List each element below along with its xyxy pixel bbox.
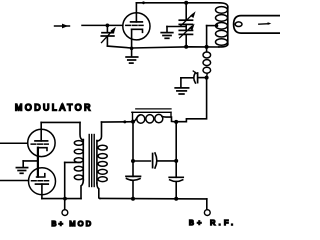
- svg-text:B+ R.F.: B+ R.F.: [189, 218, 233, 227]
- svg-text:MODULATOR: MODULATOR: [15, 103, 91, 113]
- svg-text:B+ MOD: B+ MOD: [52, 219, 92, 227]
